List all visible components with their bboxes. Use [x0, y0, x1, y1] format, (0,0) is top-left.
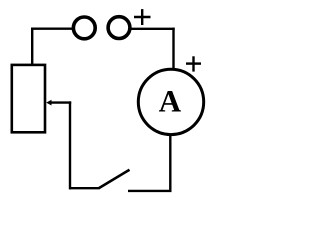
wire: bottom-right corner to switch right contact [128, 190, 172, 192]
wire: left terminal to top-left corner [31, 28, 73, 30]
switch S (open blade) [99, 170, 130, 189]
wire: top-left corner down to rheostat top [31, 28, 33, 67]
wire: switch left contact to bottom-left corner [69, 187, 100, 189]
terminal T1 (power source, left binding post) [73, 17, 95, 39]
label: + polarity of power source [134, 9, 151, 25]
rheostat R (resistive body) [12, 65, 45, 132]
wire: rheostat wiper horizontal lead [51, 101, 72, 103]
ammeter A [138, 69, 203, 134]
terminal T2 (power source, right binding post) [108, 17, 130, 39]
label: + terminal of ammeter [186, 56, 201, 71]
wire: right terminal to top-right corner [132, 28, 175, 30]
wire: bottom-left corner up to rheostat wiper [69, 101, 71, 189]
wire: top-right corner down to ammeter + terminal [172, 28, 174, 70]
rheostat R (wiper arrowhead) [46, 100, 51, 106]
wire: ammeter bottom down to bottom-right corner [169, 134, 171, 191]
